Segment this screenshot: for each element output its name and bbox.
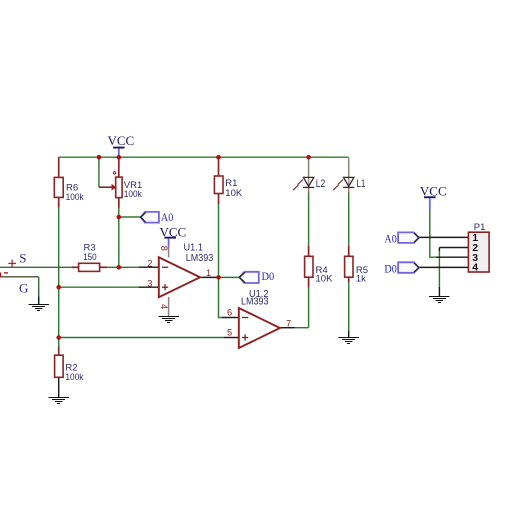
svg-text:1k: 1k	[356, 273, 366, 284]
svg-text:D0: D0	[384, 264, 397, 276]
svg-text:3: 3	[147, 279, 152, 289]
svg-text:P1: P1	[474, 222, 486, 233]
svg-text:VCC: VCC	[108, 133, 135, 148]
svg-text:7: 7	[286, 319, 291, 329]
svg-text:100k: 100k	[65, 372, 83, 383]
svg-text:S: S	[19, 250, 26, 265]
svg-text:6: 6	[227, 308, 232, 318]
svg-text:LM393: LM393	[186, 253, 214, 264]
svg-text:L1: L1	[356, 178, 365, 190]
svg-text:L2: L2	[316, 178, 326, 190]
svg-text:100k: 100k	[124, 189, 142, 200]
svg-text:4: 4	[472, 262, 478, 274]
svg-text:8: 8	[159, 246, 169, 251]
svg-text:U1.1: U1.1	[184, 242, 204, 253]
svg-text:D0: D0	[262, 271, 275, 283]
svg-text:LM393: LM393	[241, 297, 269, 308]
svg-text:VCC: VCC	[420, 183, 447, 198]
svg-text:A0: A0	[161, 212, 174, 224]
svg-text:1: 1	[206, 268, 211, 278]
svg-text:5: 5	[227, 328, 232, 338]
svg-text:A0: A0	[384, 234, 397, 246]
svg-text:10K: 10K	[225, 188, 243, 199]
svg-text:10K: 10K	[316, 273, 334, 284]
svg-text:2: 2	[147, 259, 152, 269]
svg-text:4: 4	[159, 304, 169, 309]
svg-text:G: G	[19, 280, 28, 295]
svg-text:150: 150	[83, 252, 97, 263]
svg-text:VCC: VCC	[160, 224, 187, 239]
svg-text:100k: 100k	[66, 192, 84, 203]
